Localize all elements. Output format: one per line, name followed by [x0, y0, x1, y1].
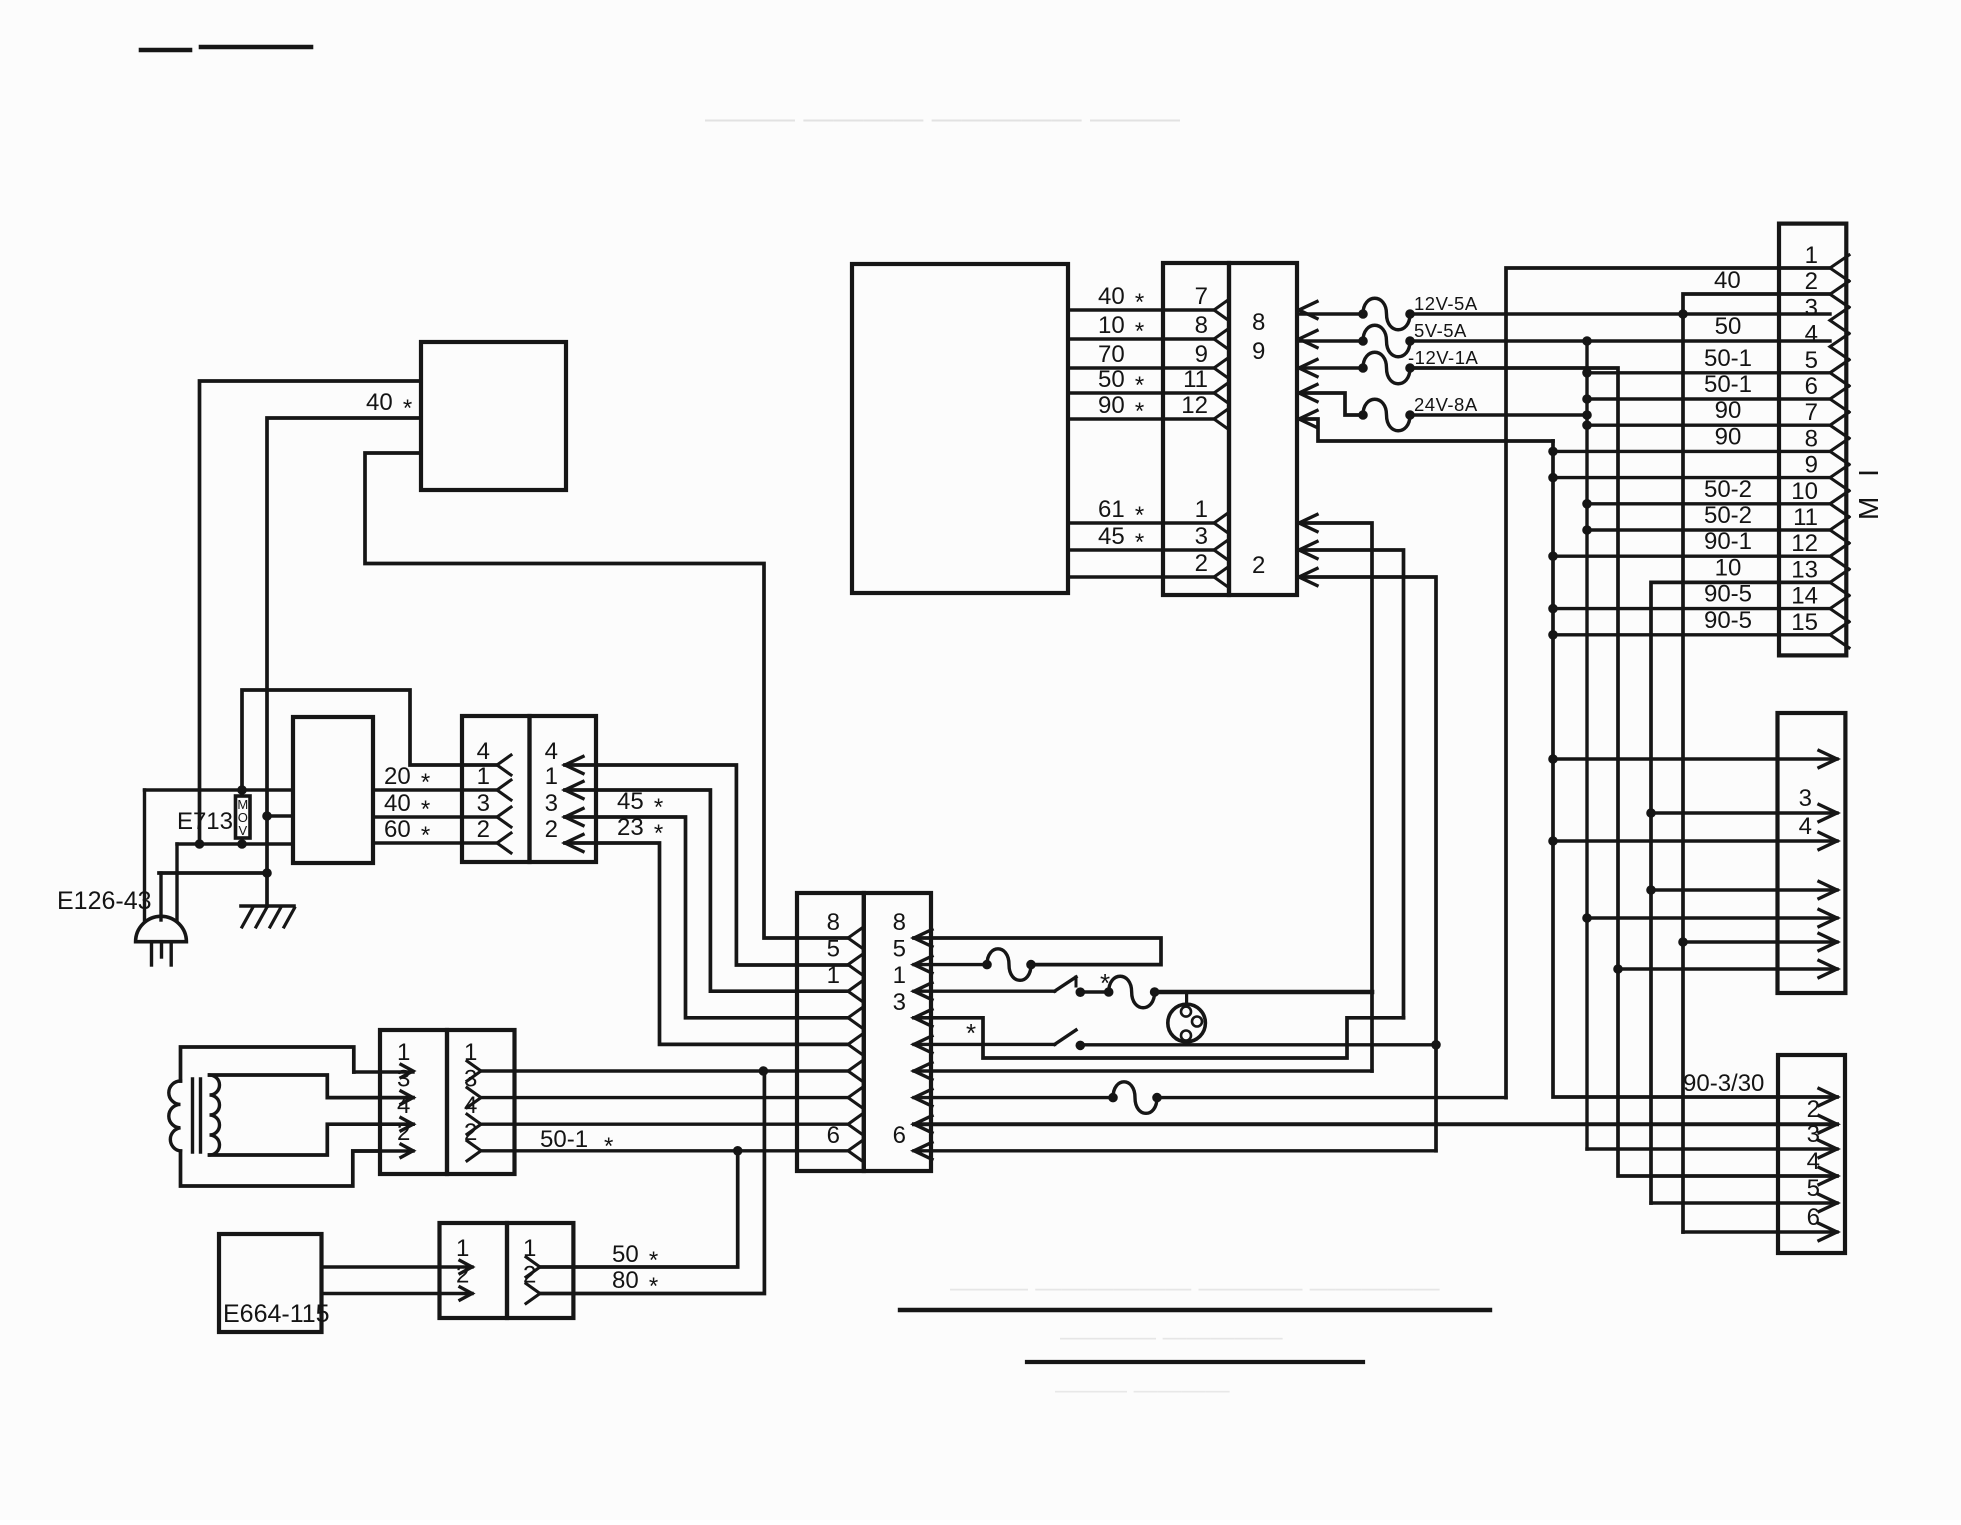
bus V2 90-net riser	[1553, 441, 1837, 1097]
wire M I pin11 from V3 bus	[1583, 526, 1592, 535]
junction earth bus	[263, 869, 272, 878]
wire main box to top connector pin 1	[1068, 521, 1214, 524]
wire transformer pin4 to center connector row 8	[481, 1122, 848, 1125]
center connector right pin row 1	[914, 930, 932, 947]
svg-text:12V-5A: 12V-5A	[1414, 293, 1478, 314]
svg-text:1: 1	[1805, 242, 1818, 269]
middle arrow7	[1819, 961, 1837, 978]
center connector right pin row 2	[914, 956, 932, 973]
top connector right arrow at y=577	[1299, 569, 1317, 586]
wire M I pin10 from V3 bus	[1583, 500, 1592, 509]
svg-text:M I: M I	[1853, 463, 1884, 520]
circular connector contact b	[1192, 1017, 1202, 1027]
transformer core line 1	[191, 1079, 194, 1152]
svg-text:70: 70	[1098, 341, 1125, 368]
svg-text:*: *	[421, 769, 430, 796]
connector A left pin 2	[497, 833, 511, 853]
top connector right arrow at y=523	[1299, 515, 1317, 532]
svg-text:2: 2	[1807, 1096, 1820, 1123]
svg-text:4: 4	[1799, 813, 1812, 840]
svg-text:90-5: 90-5	[1704, 607, 1752, 634]
svg-text:90-1: 90-1	[1704, 528, 1752, 555]
transformer primary loop lower	[181, 1151, 381, 1186]
top connector housing left	[1163, 263, 1229, 595]
wire middle arrow7 from V4	[1614, 965, 1623, 974]
switch S1 contact	[1076, 988, 1085, 997]
wire middle arrow2 from V5	[1647, 809, 1656, 818]
svg-text:8: 8	[1805, 425, 1818, 452]
svg-text:40: 40	[384, 790, 411, 817]
wire neutral line y=844 plug to line-filter box	[177, 842, 293, 845]
svg-text:10: 10	[1791, 478, 1818, 505]
svg-text:7: 7	[1805, 399, 1818, 426]
svg-text:*: *	[1135, 529, 1144, 556]
top connector left pin 9	[1214, 358, 1228, 378]
wire top pin1 drop bus	[1299, 523, 1372, 1071]
svg-text:*: *	[1135, 372, 1144, 399]
center connector left pin row 6	[848, 1061, 862, 1081]
top connector right arrow at y=368	[1299, 360, 1317, 377]
svg-text:1: 1	[893, 962, 906, 989]
svg-text:50: 50	[612, 1241, 639, 1268]
ground symbol bar	[241, 904, 294, 908]
lower-right arrow pin3	[1819, 1141, 1837, 1158]
center connector left pin row 5	[848, 1034, 862, 1054]
svg-text:*: *	[1135, 289, 1144, 316]
switch S1 blade	[1055, 977, 1076, 991]
top connector right arrow at y=339	[1299, 331, 1317, 348]
transformer connector housing right	[447, 1030, 515, 1174]
svg-text:E126-43: E126-43	[57, 887, 152, 915]
center connector right pin row 5	[914, 1036, 932, 1053]
middle arrow1	[1819, 751, 1837, 768]
wire 80* bottom connector pin2 up to row 6 junction	[540, 1071, 764, 1294]
fuse on center row2	[983, 960, 992, 969]
lower-right arrow pin2	[1819, 1116, 1837, 1133]
wire M I pin9 from V2 bus	[1549, 473, 1558, 482]
svg-text:2: 2	[1195, 550, 1208, 577]
svg-text:1: 1	[827, 962, 840, 989]
wire connector A pin1 to center connector pin 1 row	[565, 790, 848, 991]
circular connector contact a	[1181, 1007, 1191, 1017]
bus V1 M I pin1 to center row7	[1506, 268, 1830, 1098]
svg-text:50-2: 50-2	[1704, 502, 1752, 529]
svg-text:11: 11	[1793, 504, 1818, 531]
center connector housing right	[864, 893, 931, 1171]
svg-text:*: *	[604, 1133, 613, 1160]
lower-right arrow pin4	[1819, 1168, 1837, 1185]
svg-text:40: 40	[1714, 267, 1741, 294]
bottom rule short	[1027, 1360, 1363, 1364]
wire 12V-5A to M I pin3	[1410, 312, 1830, 315]
svg-text:3: 3	[1799, 785, 1812, 812]
transformer primary winding arcs	[169, 1081, 181, 1151]
wire main box to top connector pin 8	[1068, 337, 1214, 340]
M I pin 5	[1830, 360, 1849, 386]
connector A left pin 1	[497, 780, 511, 800]
middle arrow2 label 3	[1819, 805, 1837, 822]
svg-text:2: 2	[397, 1119, 410, 1146]
wire main box to top connector pin 7	[1068, 308, 1214, 311]
svg-text:5: 5	[1805, 347, 1818, 374]
svg-text:50: 50	[1098, 366, 1125, 393]
center connector right pin row 3	[914, 983, 932, 1000]
wire fused line to pin1 bus	[1155, 990, 1372, 995]
top connector left pin 7	[1214, 300, 1228, 320]
svg-text:5: 5	[893, 936, 906, 963]
M I pin 1	[1830, 255, 1849, 281]
wire V5 to lower-right pin5	[1651, 1201, 1837, 1204]
wire -12V-1A net	[1299, 366, 1363, 369]
wire 45* connector A pin3 to center connector pin 3 row	[565, 817, 848, 1018]
svg-text:12: 12	[1181, 392, 1208, 419]
transformer connector housing left	[380, 1030, 447, 1174]
circular connector bottom stub	[1185, 1042, 1188, 1045]
wire ground bus stub to line-filter box	[267, 814, 293, 817]
svg-text:4: 4	[477, 738, 490, 765]
ground symbol hatch 2	[256, 908, 267, 927]
plug prong 3	[169, 942, 172, 965]
M I pin 11	[1830, 517, 1849, 543]
svg-text:90: 90	[1098, 392, 1125, 419]
plug prong 1	[150, 942, 153, 965]
svg-text:50-2: 50-2	[1704, 476, 1752, 503]
svg-text:-12V-1A: -12V-1A	[1408, 347, 1479, 368]
box E664-115	[219, 1234, 322, 1332]
circular connector top stub	[1185, 992, 1188, 1004]
top connector left pin 3	[1214, 540, 1228, 560]
MOV top junction	[238, 786, 247, 795]
M I pin 7	[1830, 412, 1849, 438]
svg-text:8: 8	[893, 909, 906, 936]
svg-text:——— ———— ————— ———: ——— ———— ————— ———	[705, 102, 1180, 135]
svg-text:3: 3	[1195, 523, 1208, 550]
page title underline stroke 1	[141, 48, 190, 53]
circular connector body	[1168, 1004, 1206, 1042]
transformer connector right pin 2	[467, 1141, 481, 1161]
svg-text:*: *	[649, 1247, 658, 1274]
svg-text:2: 2	[523, 1262, 536, 1289]
svg-text:40: 40	[1098, 283, 1125, 310]
junction row5 with top pin2 drop	[1432, 1041, 1441, 1050]
M I pin 6	[1830, 386, 1849, 412]
wire middle arrow6 from V6	[1679, 938, 1688, 947]
wire main box to top connector pin 11	[1068, 391, 1214, 394]
mains plug E126-43 dome	[136, 916, 187, 941]
center connector left pin row 2	[848, 955, 862, 975]
M I pin 2	[1830, 281, 1849, 307]
wire center row3 to switch S1	[914, 990, 1055, 993]
M I pin 3	[1830, 307, 1849, 333]
svg-text:6: 6	[1805, 373, 1818, 400]
bottom connector left pin 2	[460, 1287, 472, 1300]
wire primary top to transformer connector pin1	[354, 1070, 413, 1073]
center connector right pin row 6	[914, 1063, 932, 1080]
ground symbol hatch 4	[284, 908, 295, 927]
top connector right arrow at y=550	[1299, 542, 1317, 559]
center connector left pin row 1	[848, 928, 862, 948]
wire E664-115 to bottom connector pin2	[322, 1292, 473, 1295]
connector A right pin 2	[565, 835, 583, 852]
svg-text:90-5: 90-5	[1704, 581, 1752, 608]
box E-top-left (unlabeled unit)	[421, 342, 566, 490]
connector A right pin 3	[565, 809, 583, 826]
middle arrow5	[1819, 910, 1837, 927]
M I pin 12	[1830, 543, 1849, 569]
middle-right connector housing	[1778, 713, 1846, 993]
plug prong 2	[160, 942, 163, 957]
svg-text:90-3/30: 90-3/30	[1683, 1070, 1764, 1097]
wire M I pin5 from V3 bus	[1583, 369, 1592, 378]
svg-text:E713: E713	[177, 808, 233, 835]
svg-text:3: 3	[397, 1066, 410, 1093]
wire M I pin14 from V2 bus	[1549, 604, 1558, 613]
M I pin 14	[1830, 596, 1849, 622]
varistor E713 MOV body	[236, 796, 251, 838]
switch S2 blade	[1055, 1030, 1076, 1044]
top connector left pin 11	[1214, 383, 1228, 403]
top connector right arrow at y=393	[1299, 385, 1317, 402]
wire secondary bottom to transformer connector pin4	[210, 1124, 414, 1155]
fuse 5V-5A	[1359, 337, 1368, 346]
junction 50* riser on row 9	[733, 1147, 742, 1156]
wire middle arrow3 from V2	[1549, 837, 1558, 846]
wire MOV top riser to connector A pin4 feed	[242, 690, 497, 790]
top connector housing right	[1229, 263, 1297, 595]
transformer connector left pin 4	[401, 1118, 413, 1131]
connector A left pin 4	[497, 755, 511, 775]
svg-text:90: 90	[1715, 423, 1742, 450]
svg-text:V: V	[238, 823, 247, 838]
svg-text:40: 40	[366, 389, 393, 416]
junction 12V net with 40 branch	[1679, 310, 1688, 319]
wire M I pin6 from V3 bus	[1583, 395, 1592, 404]
svg-text:*: *	[1135, 502, 1144, 529]
wire 20* filter to connector A pin1	[373, 788, 497, 791]
junction 80* riser on row 6	[759, 1067, 768, 1076]
lower-right arrow pin6	[1819, 1224, 1837, 1241]
fuse -12V-1A	[1359, 364, 1368, 373]
M I pin 15	[1830, 622, 1849, 648]
wire center row5 to switch S2	[914, 1043, 1055, 1046]
svg-text:5: 5	[1807, 1175, 1820, 1202]
lower-right arrow pin5	[1819, 1195, 1837, 1212]
wire main box to top connector pin 12	[1068, 417, 1214, 420]
transformer core line 2	[199, 1079, 202, 1152]
svg-text:10: 10	[1715, 554, 1742, 581]
svg-text:*: *	[649, 1273, 658, 1300]
bottom connector housing right	[507, 1223, 573, 1318]
svg-text:1: 1	[1195, 496, 1208, 523]
wire M I pin8 from V2 bus	[1549, 447, 1558, 456]
wire transformer pin1 to center connector row 6	[481, 1069, 848, 1072]
fuse after S1	[1104, 988, 1113, 997]
svg-text:4: 4	[1807, 1148, 1820, 1175]
top connector left pin 8	[1214, 329, 1228, 349]
svg-text:2: 2	[477, 816, 490, 843]
junction 5V net with V3 bus	[1583, 337, 1592, 346]
wire secondary top to transformer connector pin3	[210, 1075, 414, 1098]
svg-text:8: 8	[1252, 309, 1265, 336]
svg-text:9: 9	[1805, 452, 1818, 479]
wire 24V-8A to V3 bus	[1410, 413, 1587, 416]
transformer connector right pin 4	[467, 1114, 481, 1134]
svg-text:6: 6	[1807, 1204, 1820, 1231]
junction ground stub	[263, 812, 272, 821]
svg-text:3: 3	[464, 1066, 477, 1093]
svg-text:1: 1	[456, 1235, 469, 1262]
connector A right pin 1	[565, 782, 583, 799]
wire -12V-1A to V4 bus	[1410, 368, 1837, 1176]
top connector left pin 1	[1214, 513, 1228, 533]
M I pin 4	[1830, 334, 1849, 360]
svg-text:1: 1	[545, 763, 558, 790]
M I pin 8	[1830, 438, 1849, 464]
fuse on center row7	[1109, 1093, 1118, 1102]
svg-text:60: 60	[384, 816, 411, 843]
transformer connector right pin 1	[467, 1061, 481, 1081]
center connector right pin row 7	[914, 1089, 932, 1106]
wire phase line y=790 plug to line-filter box	[145, 788, 294, 791]
wire transformer pin2 stub	[353, 1149, 413, 1152]
svg-text:5V-5A: 5V-5A	[1414, 320, 1467, 341]
wire M I pin15 from V2 bus	[1549, 631, 1558, 640]
wire V3 to lower-right pin3	[1587, 1147, 1837, 1150]
vertical phase drop to plug	[143, 790, 146, 920]
wire center row7 fused to M I pin1 riser	[1157, 1096, 1506, 1099]
svg-text:2: 2	[456, 1262, 469, 1289]
wire 60* filter to connector A pin2	[373, 841, 497, 844]
junction x=199.5 on neutral line	[195, 840, 204, 849]
wire center row8 to lower-right connector pin2	[914, 1122, 1837, 1126]
svg-text:90: 90	[1715, 397, 1742, 424]
M I pin 13	[1830, 569, 1849, 595]
wire 24V-8A net step	[1299, 393, 1363, 415]
wire S1 to fuse	[1080, 990, 1108, 993]
transformer connector left pin 2	[401, 1144, 413, 1157]
connector M I housing	[1779, 224, 1846, 656]
center connector right pin row 9	[914, 1142, 932, 1159]
center connector left pin row 9	[848, 1141, 862, 1161]
center connector left pin row 4	[848, 1008, 862, 1028]
wire main box to top connector pin 9	[1068, 366, 1214, 369]
wire top pin3 drop bus	[1299, 550, 1404, 1018]
svg-text:*: *	[1135, 398, 1144, 425]
switch S2 contact	[1076, 1041, 1085, 1050]
bottom connector right pin 1	[526, 1257, 540, 1277]
connector A housing left	[462, 716, 530, 862]
wire 12V-5A net	[1299, 312, 1363, 315]
transformer secondary winding arcs	[210, 1075, 220, 1155]
top connector right arrow at y=310	[1299, 302, 1317, 319]
top connector right arrow at y=419	[1299, 411, 1317, 428]
svg-text:4: 4	[1805, 321, 1818, 348]
svg-text:8: 8	[827, 909, 840, 936]
junction 24V on V3 bus	[1583, 411, 1592, 420]
svg-text:45: 45	[1098, 523, 1125, 550]
wire center row2 to fuse	[914, 963, 987, 966]
connector A right pin 4	[565, 757, 583, 774]
svg-text:1: 1	[464, 1039, 477, 1066]
wire center row6 to pin1 bus bottom	[914, 1069, 1372, 1072]
svg-text:*: *	[421, 796, 430, 823]
wire 50* bottom connector pin1 up to row 9 junction	[540, 1151, 738, 1267]
wire V6 to lower-right pin6	[1683, 1230, 1837, 1233]
wire M I pin7 from V3 bus	[1583, 421, 1592, 430]
transformer connector left pin 1	[401, 1065, 413, 1078]
middle arrow6	[1819, 934, 1837, 951]
svg-text:3: 3	[893, 989, 906, 1016]
wire earth link y=873 plug to ground bus	[159, 871, 267, 875]
svg-text:2: 2	[545, 816, 558, 843]
wire top pin2 drop bus	[1299, 577, 1436, 1151]
center connector housing left	[797, 893, 864, 1171]
svg-text:2: 2	[1805, 268, 1818, 295]
svg-text:15: 15	[1791, 609, 1818, 636]
M I pin 10	[1830, 491, 1849, 517]
svg-text:6: 6	[893, 1122, 906, 1149]
lower-right arrow 90-3/30	[1819, 1089, 1837, 1106]
svg-text:*: *	[1135, 318, 1144, 345]
wire main box to top connector pin 3	[1068, 548, 1214, 551]
wire middle arrow5 from V3	[1583, 914, 1592, 923]
svg-text:23: 23	[617, 814, 644, 841]
svg-text:14: 14	[1791, 583, 1818, 610]
connector A housing right	[530, 716, 597, 862]
svg-text:3: 3	[1807, 1121, 1820, 1148]
svg-text:———— —————: ———— —————	[1060, 1324, 1283, 1351]
wire E664-115 to bottom connector pin1	[322, 1265, 473, 1268]
wire from top-left box port A to x=199.5 bus	[200, 381, 422, 844]
bottom rule long	[900, 1308, 1490, 1312]
svg-text:13: 13	[1791, 556, 1818, 583]
svg-text:24V-8A: 24V-8A	[1414, 394, 1478, 415]
wire connector A pin4 to center connector pin 5 row	[565, 765, 848, 965]
svg-text:——— ————: ——— ————	[1055, 1377, 1230, 1404]
svg-text:50: 50	[1715, 313, 1742, 340]
svg-text:12: 12	[1791, 530, 1818, 557]
top connector left pin 2	[1214, 567, 1228, 587]
lower-right connector housing	[1778, 1055, 1845, 1253]
svg-text:2: 2	[464, 1119, 477, 1146]
svg-text:3: 3	[477, 790, 490, 817]
svg-text:20: 20	[384, 763, 411, 790]
wire 23* connector A pin2 to center connector row 5	[565, 843, 848, 1044]
svg-text:50-1: 50-1	[540, 1126, 588, 1153]
center connector left pin row 7	[848, 1088, 862, 1108]
svg-text:4: 4	[545, 738, 558, 765]
svg-text:7: 7	[1195, 283, 1208, 310]
svg-text:61: 61	[1098, 496, 1125, 523]
svg-text:10: 10	[1098, 312, 1125, 339]
bottom connector housing left	[440, 1223, 508, 1318]
svg-text:4: 4	[397, 1092, 410, 1119]
center connector right pin row 8	[914, 1116, 932, 1133]
bus V6 40-net riser	[1683, 294, 1830, 1232]
svg-text:1: 1	[397, 1039, 410, 1066]
wire 50-1* transformer pin2 to center connector row 9	[481, 1149, 848, 1152]
middle arrow3 label 4	[1819, 833, 1837, 850]
wire S2 to pin2 drop junction	[1080, 1043, 1436, 1046]
top connector left pin 12	[1214, 409, 1228, 429]
wire center row4 rerouted to top connector pin 3 drop	[914, 1018, 1404, 1058]
svg-text:——— —————— ———— —————: ——— —————— ———— —————	[950, 1272, 1440, 1302]
svg-text:E664-115: E664-115	[223, 1300, 330, 1328]
M I pin 9	[1830, 465, 1849, 491]
wire transformer pin3 to center connector row 7	[481, 1096, 848, 1099]
vertical earth drop to plug	[159, 873, 162, 920]
transformer connector right pin 3	[467, 1088, 481, 1108]
